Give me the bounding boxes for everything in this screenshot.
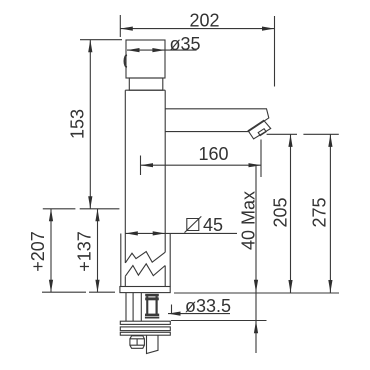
cartridge top rib xyxy=(145,297,159,300)
svg-text:202: 202 xyxy=(189,11,219,31)
arrowhead +207 bottom xyxy=(49,280,53,293)
upper break zigzag xyxy=(125,252,165,263)
collar under head xyxy=(129,78,163,90)
arrowhead ø35 right xyxy=(152,48,165,52)
aerator outlet inner rect xyxy=(258,129,266,136)
dimension 205 line xyxy=(290,134,292,292)
base sleeve outer lines xyxy=(121,234,170,287)
mid reference tick (153 bottom / +207 +137 top) xyxy=(43,208,120,210)
washer plate 2 xyxy=(120,327,170,331)
arrowhead 153 bottom xyxy=(88,196,92,209)
arrowhead 40max down at deck xyxy=(254,280,258,293)
arrowhead 160 left xyxy=(141,163,154,167)
arrowhead ø35 left xyxy=(127,48,140,52)
dimension ø33.5 leader xyxy=(168,305,230,315)
160 right extension line xyxy=(260,140,262,178)
arrowhead 153 top xyxy=(88,40,92,53)
arrowhead 40max up at washer line xyxy=(254,321,258,334)
svg-text:ø33.5: ø33.5 xyxy=(185,296,231,316)
202 left extension line xyxy=(119,15,121,37)
160 left tick xyxy=(140,156,142,176)
arrowhead +137 bottom xyxy=(95,280,99,293)
cartridge bottom cap xyxy=(145,317,159,319)
aerator block (rotated) xyxy=(248,120,271,139)
body column right edge xyxy=(164,90,166,286)
dimension 40 Max line xyxy=(255,166,257,353)
cartridge left wall xyxy=(146,296,148,314)
washer plate 3 xyxy=(120,332,170,335)
arrowhead 205 top xyxy=(288,134,292,147)
body column left edge xyxy=(124,90,126,286)
dimension ø35 line xyxy=(127,49,197,51)
hex nut xyxy=(130,336,145,349)
dimension +207 line xyxy=(50,209,52,292)
base flange xyxy=(120,287,170,293)
svg-text:160: 160 xyxy=(198,144,228,164)
202 right extension line xyxy=(274,16,276,87)
cartridge right wall xyxy=(156,296,158,314)
arrowhead 202 left xyxy=(120,27,133,31)
arrowhead 160 right xyxy=(249,163,262,167)
dimension 153 line xyxy=(89,40,91,209)
cartridge top cap xyxy=(145,294,159,297)
lower break zigzag xyxy=(125,264,165,276)
faucet head (handle block) xyxy=(126,40,165,78)
dimension 202 line xyxy=(120,28,274,30)
dimension 160 line xyxy=(141,164,262,166)
washer level line (40 Max lower reference) xyxy=(171,320,267,322)
arrowhead +137 top xyxy=(95,209,99,222)
arrowhead 202 right xyxy=(262,27,275,31)
arrowhead 275 top xyxy=(328,134,332,147)
arrowhead ø33.5 leader xyxy=(168,312,181,316)
dimension square-45 line xyxy=(125,232,237,234)
arrowhead sq45 right xyxy=(153,231,166,235)
svg-text:40 Max: 40 Max xyxy=(239,191,259,250)
square symbol of 45 xyxy=(185,216,202,232)
arrowhead +207 top xyxy=(49,209,53,222)
arrowhead 275 bottom xyxy=(328,280,332,293)
svg-text:+137: +137 xyxy=(75,231,95,272)
svg-text:45: 45 xyxy=(203,215,223,235)
shank vertical lines xyxy=(126,293,141,322)
dimension +137 line xyxy=(97,209,99,292)
washer plate 1 xyxy=(120,321,170,324)
spout arm outline xyxy=(165,109,269,132)
svg-text:275: 275 xyxy=(310,197,330,227)
cartridge lower band xyxy=(145,314,159,316)
arrowhead 205 bottom xyxy=(288,280,292,293)
arrowhead sq45 left xyxy=(125,231,138,235)
svg-text:ø35: ø35 xyxy=(170,34,201,54)
body top edge xyxy=(125,89,165,91)
head top tick (153 top) xyxy=(80,39,122,41)
svg-text:153: 153 xyxy=(68,109,88,139)
deck line left segments xyxy=(42,291,115,293)
svg-text:+207: +207 xyxy=(28,231,48,272)
supply pipe tail xyxy=(147,335,159,353)
svg-text:205: 205 xyxy=(271,197,291,227)
deck line right segment xyxy=(174,292,339,294)
handle button arc on head left edge xyxy=(124,55,126,67)
dimension 275 line xyxy=(329,134,331,292)
spout level tick line xyxy=(267,133,339,135)
